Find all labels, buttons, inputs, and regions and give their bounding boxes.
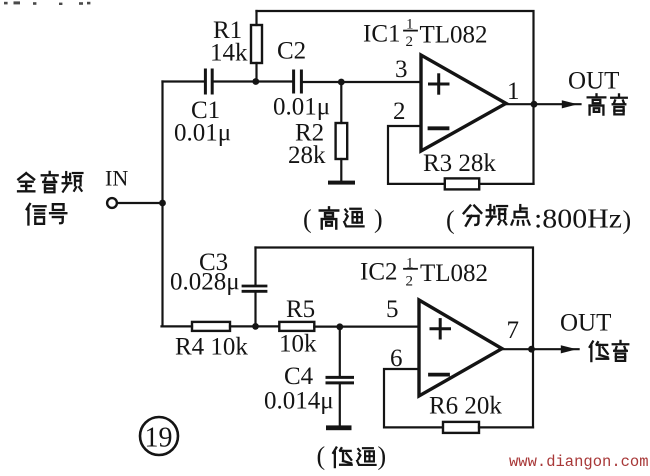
capacitor C4 [327,327,353,426]
svg-text:2: 2 [393,98,406,125]
svg-text:R5: R5 [286,296,315,323]
wire top feedback loop IC1 [257,11,534,184]
wire R3 to output vertical [479,183,533,185]
op-amp IC1 minus input marking [430,126,448,130]
ground (R2) [328,181,355,185]
node junction R5/C4 [336,323,343,330]
scan specks top edge [4,1,90,5]
CJK text: xin hao (signal) [27,204,46,224]
svg-text:OUT: OUT [568,68,619,95]
resistor R5 [279,322,314,331]
op-amp IC2 minus input marking [430,373,448,377]
wire IC2 output [502,348,579,350]
wire R5 to pin5 [314,326,419,328]
CJK text: quan yin pin (full audio) [18,94,628,467]
wire C2 to pin3 [303,81,421,83]
CJK text: di yin (low tone, bottom OUT) [590,342,608,362]
CJK text: gao yin (high tone, top OUT) [588,94,606,114]
svg-text:R3 28k: R3 28k [423,150,496,177]
resistor R1 [251,11,262,82]
wire bottom channel left [162,325,193,327]
svg-text:R4 10k: R4 10k [175,334,248,361]
svg-text:IC1: IC1 [363,21,401,48]
resistor R2 [336,82,348,181]
wire top feedback loop IC2 [256,248,534,428]
svg-text:14k: 14k [210,40,248,67]
svg-text:): ) [374,205,383,234]
CJK text: gao tong (high pass) [320,207,338,228]
ground (C4) [326,425,352,430]
svg-text:0.014μ: 0.014μ [264,388,334,415]
op-amp IC2 plus input marking [431,320,450,338]
svg-text:0.028μ: 0.028μ [170,269,240,296]
svg-text:(: ( [446,206,455,235]
svg-text:C2: C2 [277,38,306,65]
node IC1 output junction [531,101,538,108]
svg-text:(: ( [303,205,312,234]
resistor R3 [445,178,479,189]
op-amp IC1 plus input marking [430,75,449,93]
capacitor C1 [205,70,212,93]
svg-text:TL082: TL082 [420,22,488,49]
svg-text:28k: 28k [288,142,326,169]
svg-text:www.diangon.com: www.diangon.com [509,453,649,471]
wire IC1 output [506,103,581,105]
svg-text:IN: IN [105,166,128,191]
svg-text:IC2: IC2 [360,259,398,286]
op-amp U2 IC2 triangle [419,300,502,396]
node IC2 output junction [528,346,535,353]
capacitor C2 [294,71,302,92]
svg-text:TL082: TL082 [420,260,488,287]
arrow OUT low [561,345,577,353]
svg-text:R6 20k: R6 20k [429,393,502,420]
svg-text:(: ( [317,442,326,471]
svg-text:2: 2 [406,274,414,290]
CJK text: di tong (low pass) [333,448,351,468]
svg-text:19: 19 [145,423,173,454]
svg-text:7: 7 [507,317,520,344]
svg-text:3: 3 [395,56,408,83]
wire C1 to C2 [214,80,293,82]
svg-text:): ) [378,442,387,471]
svg-text:): ) [623,206,632,235]
node junction R1/C1/C2 [252,78,259,85]
figure number circle 19 [140,417,178,455]
svg-text:5: 5 [386,296,399,323]
main schematic strokes go here [107,11,580,455]
wire IN to vertical [117,202,162,204]
CJK text: fen pin dian (crossover point) [464,206,482,226]
resistor R6 [443,422,479,433]
svg-text:OUT: OUT [560,310,611,337]
capacitor C3 [243,248,266,327]
wire R4 to R5 [230,325,279,327]
terminal IN circle [107,198,117,208]
svg-text:2: 2 [406,34,414,50]
node junction C2/R2 [338,79,345,86]
svg-text:C4: C4 [284,363,314,390]
arrow OUT high [562,100,578,108]
svg-text:0.01μ: 0.01μ [273,94,330,121]
svg-text:0.01μ: 0.01μ [174,120,231,147]
wire R6 to output vertical [479,426,533,428]
wire pin6 feedback loop [384,369,443,427]
wire left input vertical [161,82,163,327]
resistor R4 [192,322,230,331]
svg-text:6: 6 [390,345,403,372]
svg-text:1: 1 [507,78,520,105]
fraction 1/2 for IC1 [406,17,414,51]
fraction 1/2 for IC2 [406,256,414,290]
wire pin2 feedback loop [388,126,445,184]
node junction R4/R5/C3 [252,323,259,330]
node IN junction [159,200,166,207]
op-amp U1 IC1 triangle [421,55,506,151]
wire input channel (top) [163,80,205,82]
svg-text:10k: 10k [279,331,317,358]
svg-text::800Hz: :800Hz [534,204,622,234]
